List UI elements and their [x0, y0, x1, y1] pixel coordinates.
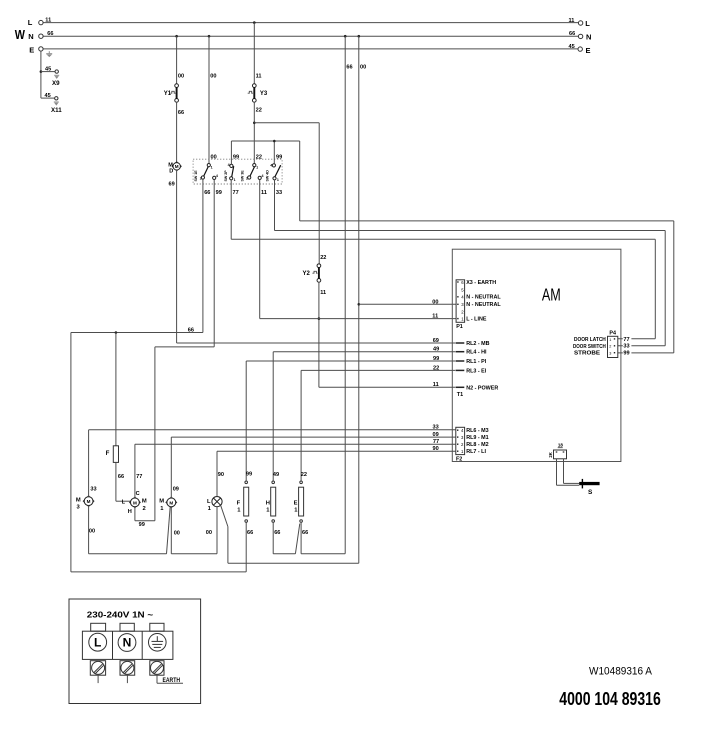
svg-text:69: 69 [433, 338, 439, 344]
svg-text:P4: P4 [609, 331, 616, 337]
junction L at Y3 [253, 21, 256, 24]
wire 99 strobe net top [231, 141, 299, 221]
svg-text:RL1 - PI: RL1 - PI [466, 359, 487, 365]
motor MD [172, 162, 181, 171]
svg-text:W: W [15, 27, 26, 42]
wire 11 SW3 contact down [259, 180, 261, 319]
connector X2 buzzer [554, 450, 567, 459]
screw earth [151, 661, 164, 674]
wire 00 N to SW1 [208, 36, 210, 164]
svg-text:18: 18 [558, 443, 564, 448]
svg-text:66: 66 [346, 64, 352, 70]
svg-text:33: 33 [623, 344, 629, 350]
wire M3 to rail1 [88, 506, 90, 554]
svg-text:L - LINE: L - LINE [466, 317, 487, 323]
svg-text:11: 11 [256, 73, 262, 79]
terminal block [82, 631, 172, 659]
svg-text:99: 99 [433, 356, 439, 362]
svg-text:09: 09 [173, 487, 179, 493]
svg-text:77: 77 [233, 190, 239, 196]
switch SW3 [248, 164, 262, 180]
svg-text:S: S [588, 489, 593, 496]
svg-text:11: 11 [433, 382, 439, 388]
svg-text:22: 22 [433, 365, 439, 371]
svg-text:M: M [159, 499, 164, 505]
svg-text:33: 33 [433, 425, 439, 431]
svg-text:49: 49 [433, 347, 439, 353]
junction 00 to P1 [358, 303, 361, 306]
svg-text:90: 90 [218, 472, 224, 478]
wire 33 to P4 [275, 231, 666, 346]
appliance manager AM box [452, 249, 621, 461]
svg-text:22: 22 [256, 108, 262, 114]
terminal L left [39, 20, 43, 24]
svg-text:11: 11 [569, 18, 575, 24]
svg-text:77: 77 [623, 337, 629, 343]
screw N [121, 661, 134, 674]
svg-text:AM: AM [542, 285, 561, 305]
svg-text:1: 1 [277, 178, 279, 182]
svg-text:DOOR LATCH: DOOR LATCH [574, 337, 606, 343]
svg-text:M: M [175, 164, 179, 169]
svg-text:77: 77 [136, 474, 142, 480]
svg-text:RL7 - LI: RL7 - LI [466, 449, 486, 455]
svg-text:M: M [76, 497, 81, 503]
lamp L1 [212, 497, 222, 507]
svg-text:N: N [28, 32, 33, 41]
svg-text:N - NEUTRAL: N - NEUTRAL [466, 295, 501, 301]
svg-text:C: C [136, 491, 140, 497]
svg-text:E: E [586, 46, 591, 55]
wire E branch to X9/X11 [40, 51, 42, 98]
wire 66 net left [71, 333, 246, 572]
wire MD to RL2 corner [176, 170, 178, 343]
svg-text:4: 4 [216, 174, 218, 178]
heater F1 [244, 481, 249, 522]
svg-text:4000 104 89316: 4000 104 89316 [559, 688, 661, 709]
svg-text:H: H [266, 500, 270, 506]
wire 33 to M3 [88, 430, 90, 497]
svg-text:66: 66 [302, 530, 308, 536]
wire L lead [97, 675, 99, 683]
connector P1 [456, 280, 465, 323]
svg-text:49: 49 [273, 472, 279, 478]
junction N at x358 [358, 35, 361, 38]
svg-text:X9: X9 [52, 80, 60, 87]
wire 22 RL3 [301, 369, 455, 371]
terminal tabs [91, 623, 164, 631]
terminal X9 [55, 70, 58, 73]
wire Y1 to MD motor [176, 102, 178, 163]
svg-text:00: 00 [432, 299, 438, 305]
svg-text:11: 11 [320, 290, 326, 296]
junction N at x209 [208, 35, 211, 38]
svg-text:STROBE: STROBE [574, 351, 600, 357]
arrow X11 [54, 102, 59, 106]
wire M1 to rail2 [170, 507, 172, 554]
terminal X11 [55, 97, 58, 100]
wire X2 to sensor S left [557, 459, 580, 485]
screw L [92, 661, 105, 674]
svg-text:09: 09 [433, 432, 439, 438]
svg-text:L: L [207, 499, 211, 505]
wire H1 to rail3 [272, 522, 274, 554]
F2 pin marks [457, 430, 458, 452]
junction Y2 on 11 line [318, 317, 321, 320]
svg-text:00: 00 [178, 73, 184, 79]
wire 90 to L1 [216, 451, 218, 496]
junction E branch [40, 70, 43, 73]
wire 99 RL1 to F1 [245, 361, 247, 481]
svg-text:EARTH: EARTH [163, 677, 181, 684]
svg-text:99: 99 [246, 471, 252, 477]
wire 66 SW1 down [202, 179, 204, 332]
svg-text:66: 66 [178, 110, 184, 116]
wire N to Y1 [176, 36, 178, 84]
svg-text:99: 99 [216, 190, 222, 196]
svg-text:230-240V 1N ~: 230-240V 1N ~ [87, 611, 154, 620]
svg-text:Y3: Y3 [260, 91, 268, 97]
svg-text:Y1: Y1 [164, 91, 172, 97]
svg-text:45: 45 [569, 44, 575, 50]
P1 pin numbers [461, 280, 464, 322]
wire 11 L to Y3 [253, 23, 255, 84]
sensor S [579, 479, 599, 489]
svg-text:SW 4D: SW 4D [266, 170, 270, 182]
label 18 X2 [558, 443, 564, 448]
svg-text:22: 22 [301, 472, 307, 478]
svg-text:L: L [94, 635, 101, 649]
terminal L circle [89, 633, 107, 651]
wire 99 strobe to P4 [300, 221, 674, 353]
wire 99 RL1 [246, 360, 455, 362]
svg-text:F: F [237, 500, 241, 506]
svg-text:F2: F2 [456, 457, 462, 463]
svg-text:4: 4 [228, 163, 230, 167]
svg-text:RL8 - M2: RL8 - M2 [466, 442, 488, 448]
wire rail4 66 [301, 553, 345, 555]
svg-text:66: 66 [569, 31, 575, 37]
svg-text:22: 22 [256, 155, 262, 161]
thermostat Y1 [170, 84, 178, 103]
switch SW4 [272, 164, 280, 180]
svg-text:11: 11 [432, 314, 438, 320]
label 99 P4 [623, 350, 632, 357]
svg-text:2K: 2K [548, 451, 553, 457]
wire 33 RL6 to M3 [89, 429, 456, 431]
connector F2 [456, 427, 465, 454]
wire 77 SW2 down [230, 180, 232, 239]
svg-text:E: E [294, 500, 298, 506]
wire 33 SW4 down [274, 180, 276, 231]
wire N bus [43, 35, 578, 37]
wire L1 diagonal to 00 line [221, 505, 359, 563]
svg-text:L: L [585, 19, 590, 28]
wire 99 SW1 contact down [213, 180, 215, 347]
svg-text:00: 00 [210, 73, 216, 79]
svg-text:22: 22 [320, 255, 326, 261]
wire 90 RL7 to L1 [217, 450, 456, 452]
heater H1 [271, 481, 276, 522]
svg-text:L: L [28, 18, 33, 27]
P4 pin numbers [609, 338, 611, 356]
junction N at Y1 [175, 35, 178, 38]
switch SW2 [230, 164, 234, 180]
junction Y3 output [253, 122, 256, 125]
svg-text:2: 2 [200, 177, 202, 181]
svg-text:RL9 - M1: RL9 - M1 [466, 435, 488, 441]
svg-text:11: 11 [45, 17, 51, 23]
terminal E left [39, 47, 43, 51]
svg-text:N2 - POWER: N2 - POWER [466, 385, 498, 391]
label 77 P4 [623, 336, 632, 343]
mains terminal box [69, 599, 201, 704]
svg-text:SW 2P: SW 2P [224, 170, 228, 182]
svg-text:M: M [142, 499, 147, 505]
svg-text:M: M [133, 500, 137, 505]
svg-text:4: 4 [270, 163, 272, 167]
svg-text:66: 66 [274, 530, 280, 536]
svg-text:99: 99 [233, 155, 239, 161]
wire L bus [43, 22, 578, 24]
svg-text:M: M [169, 500, 173, 505]
wire 99 M2 H to SW1 contact [135, 347, 214, 521]
terminal earth circle [149, 634, 167, 652]
wire L1 to rail2 [216, 507, 218, 554]
wire N lead [126, 675, 128, 683]
svg-text:00: 00 [89, 529, 95, 535]
P1 pin marks [457, 281, 458, 319]
wire 00 to P1 pin3 [359, 303, 456, 305]
wire 69 MD to RL2 [177, 342, 456, 344]
svg-text:RL3 - EI: RL3 - EI [466, 368, 487, 374]
wire to X11 [41, 97, 55, 99]
wire 66 long vertical [344, 36, 346, 554]
svg-text:RL2 - MB: RL2 - MB [466, 341, 489, 347]
svg-text:N: N [586, 33, 591, 42]
wire 77 RL8 to M2 [135, 443, 456, 445]
wire 22 RL3 to E1 [300, 370, 302, 481]
wire 22 drop to Y2 [318, 123, 320, 264]
svg-text:P1: P1 [456, 324, 463, 330]
svg-text:1: 1 [609, 338, 611, 342]
label 33 P4 [623, 343, 632, 350]
door switch assembly box [193, 159, 282, 184]
svg-text:4: 4 [262, 174, 264, 178]
svg-text:1: 1 [256, 166, 258, 170]
wire 77 to M2 C [134, 444, 136, 498]
svg-text:F: F [106, 450, 110, 457]
heater E1 [299, 481, 304, 522]
motor M3 [83, 496, 94, 507]
svg-text:3: 3 [609, 352, 611, 356]
svg-text:77: 77 [433, 439, 439, 445]
svg-text:00: 00 [174, 531, 180, 537]
svg-text:33: 33 [90, 486, 96, 492]
svg-text:2: 2 [246, 177, 248, 181]
P4 pin marks [614, 338, 615, 353]
wire earth lead [157, 675, 183, 683]
junction strobe at SW4 [273, 140, 276, 143]
wire 22 Y3 to SW3 [253, 102, 255, 164]
wire 77 to P4 [231, 239, 655, 338]
fuse F [113, 333, 130, 502]
wire rail2 00 [171, 553, 217, 555]
wire 22 junction to Y2 drop [254, 122, 319, 124]
wire 00 long vertical [358, 36, 360, 563]
svg-text:1: 1 [234, 178, 236, 182]
connector P4 [608, 336, 618, 357]
junction N at x345 [344, 35, 347, 38]
svg-text:45: 45 [45, 66, 51, 72]
svg-text:66: 66 [118, 474, 124, 480]
wire 11 to P1 pin1 [260, 318, 456, 320]
svg-text:00: 00 [206, 530, 212, 536]
wire 49 RL4 [273, 351, 455, 353]
wire 09 RL9 to M1 [171, 436, 456, 438]
svg-text:X11: X11 [51, 107, 62, 114]
svg-text:45: 45 [45, 93, 51, 99]
svg-text:2: 2 [609, 345, 611, 349]
terminal N left [39, 34, 43, 38]
svg-text:RL4 - HI: RL4 - HI [466, 350, 487, 356]
arrow X9 [54, 75, 59, 79]
svg-text:M: M [87, 499, 91, 504]
wire E1 to rail4 [300, 522, 302, 554]
F2 pin numbers [461, 428, 464, 454]
svg-text:69: 69 [169, 182, 175, 188]
svg-text:33: 33 [276, 190, 282, 196]
svg-text:66: 66 [204, 190, 210, 196]
svg-text:66: 66 [47, 31, 53, 37]
wire rail1 00 [89, 553, 167, 555]
svg-text:D: D [169, 168, 173, 174]
wire 11 N2 power [319, 386, 455, 388]
thermostat Y2 [312, 264, 320, 282]
svg-text:DOOR SWITCH: DOOR SWITCH [573, 344, 606, 350]
ground mark below E terminal [46, 51, 52, 57]
terminal N right [578, 34, 582, 38]
svg-text:H: H [128, 509, 132, 515]
junction fuse F tap [115, 331, 118, 334]
svg-text:66: 66 [188, 327, 194, 333]
svg-text:1: 1 [211, 166, 213, 170]
thermostat Y3 [248, 84, 256, 103]
svg-text:L: L [122, 500, 126, 506]
wire 49 RL4 to H1 [272, 352, 274, 481]
svg-text:X3 - EARTH: X3 - EARTH [466, 280, 496, 286]
svg-text:E: E [29, 45, 34, 54]
wire X2 to sensor S right [564, 459, 580, 484]
svg-text:SW 1E: SW 1E [194, 170, 198, 182]
svg-text:00: 00 [211, 155, 217, 161]
svg-text:00: 00 [360, 64, 366, 70]
svg-text:N - NEUTRAL: N - NEUTRAL [466, 302, 501, 308]
terminal L right [578, 21, 582, 25]
svg-text:Y2: Y2 [303, 271, 311, 277]
motor M2 [130, 497, 141, 508]
switch SW1 [201, 164, 216, 180]
svg-text:99: 99 [139, 522, 145, 528]
svg-text:11: 11 [261, 190, 267, 196]
wire E bus [43, 48, 577, 50]
X2 pin marks [556, 451, 565, 452]
wire to X9 [41, 71, 55, 73]
node W supply [0, 0, 1, 1]
svg-text:W10489316 A: W10489316 A [589, 665, 653, 677]
wire 09 to M1 [170, 437, 172, 498]
svg-text:2: 2 [143, 506, 146, 512]
svg-text:99: 99 [276, 155, 282, 161]
terminal E right [578, 47, 582, 51]
wire 11 Y2 down to N2 row [318, 282, 320, 387]
wire M1 to rail diagonal [167, 507, 171, 554]
svg-text:99: 99 [623, 351, 629, 357]
motor M1 [166, 497, 177, 508]
svg-text:90: 90 [433, 446, 439, 452]
svg-text:SW 3E: SW 3E [240, 170, 244, 182]
svg-text:N: N [123, 636, 132, 650]
svg-text:T1: T1 [457, 392, 463, 398]
wire rail3 66 [273, 553, 295, 555]
svg-text:66: 66 [247, 530, 253, 536]
terminal N circle [118, 634, 136, 652]
screw blocks [90, 661, 164, 676]
svg-text:RL6 - M3: RL6 - M3 [466, 428, 488, 434]
wire E1 diagonal to rail3 [295, 524, 299, 554]
